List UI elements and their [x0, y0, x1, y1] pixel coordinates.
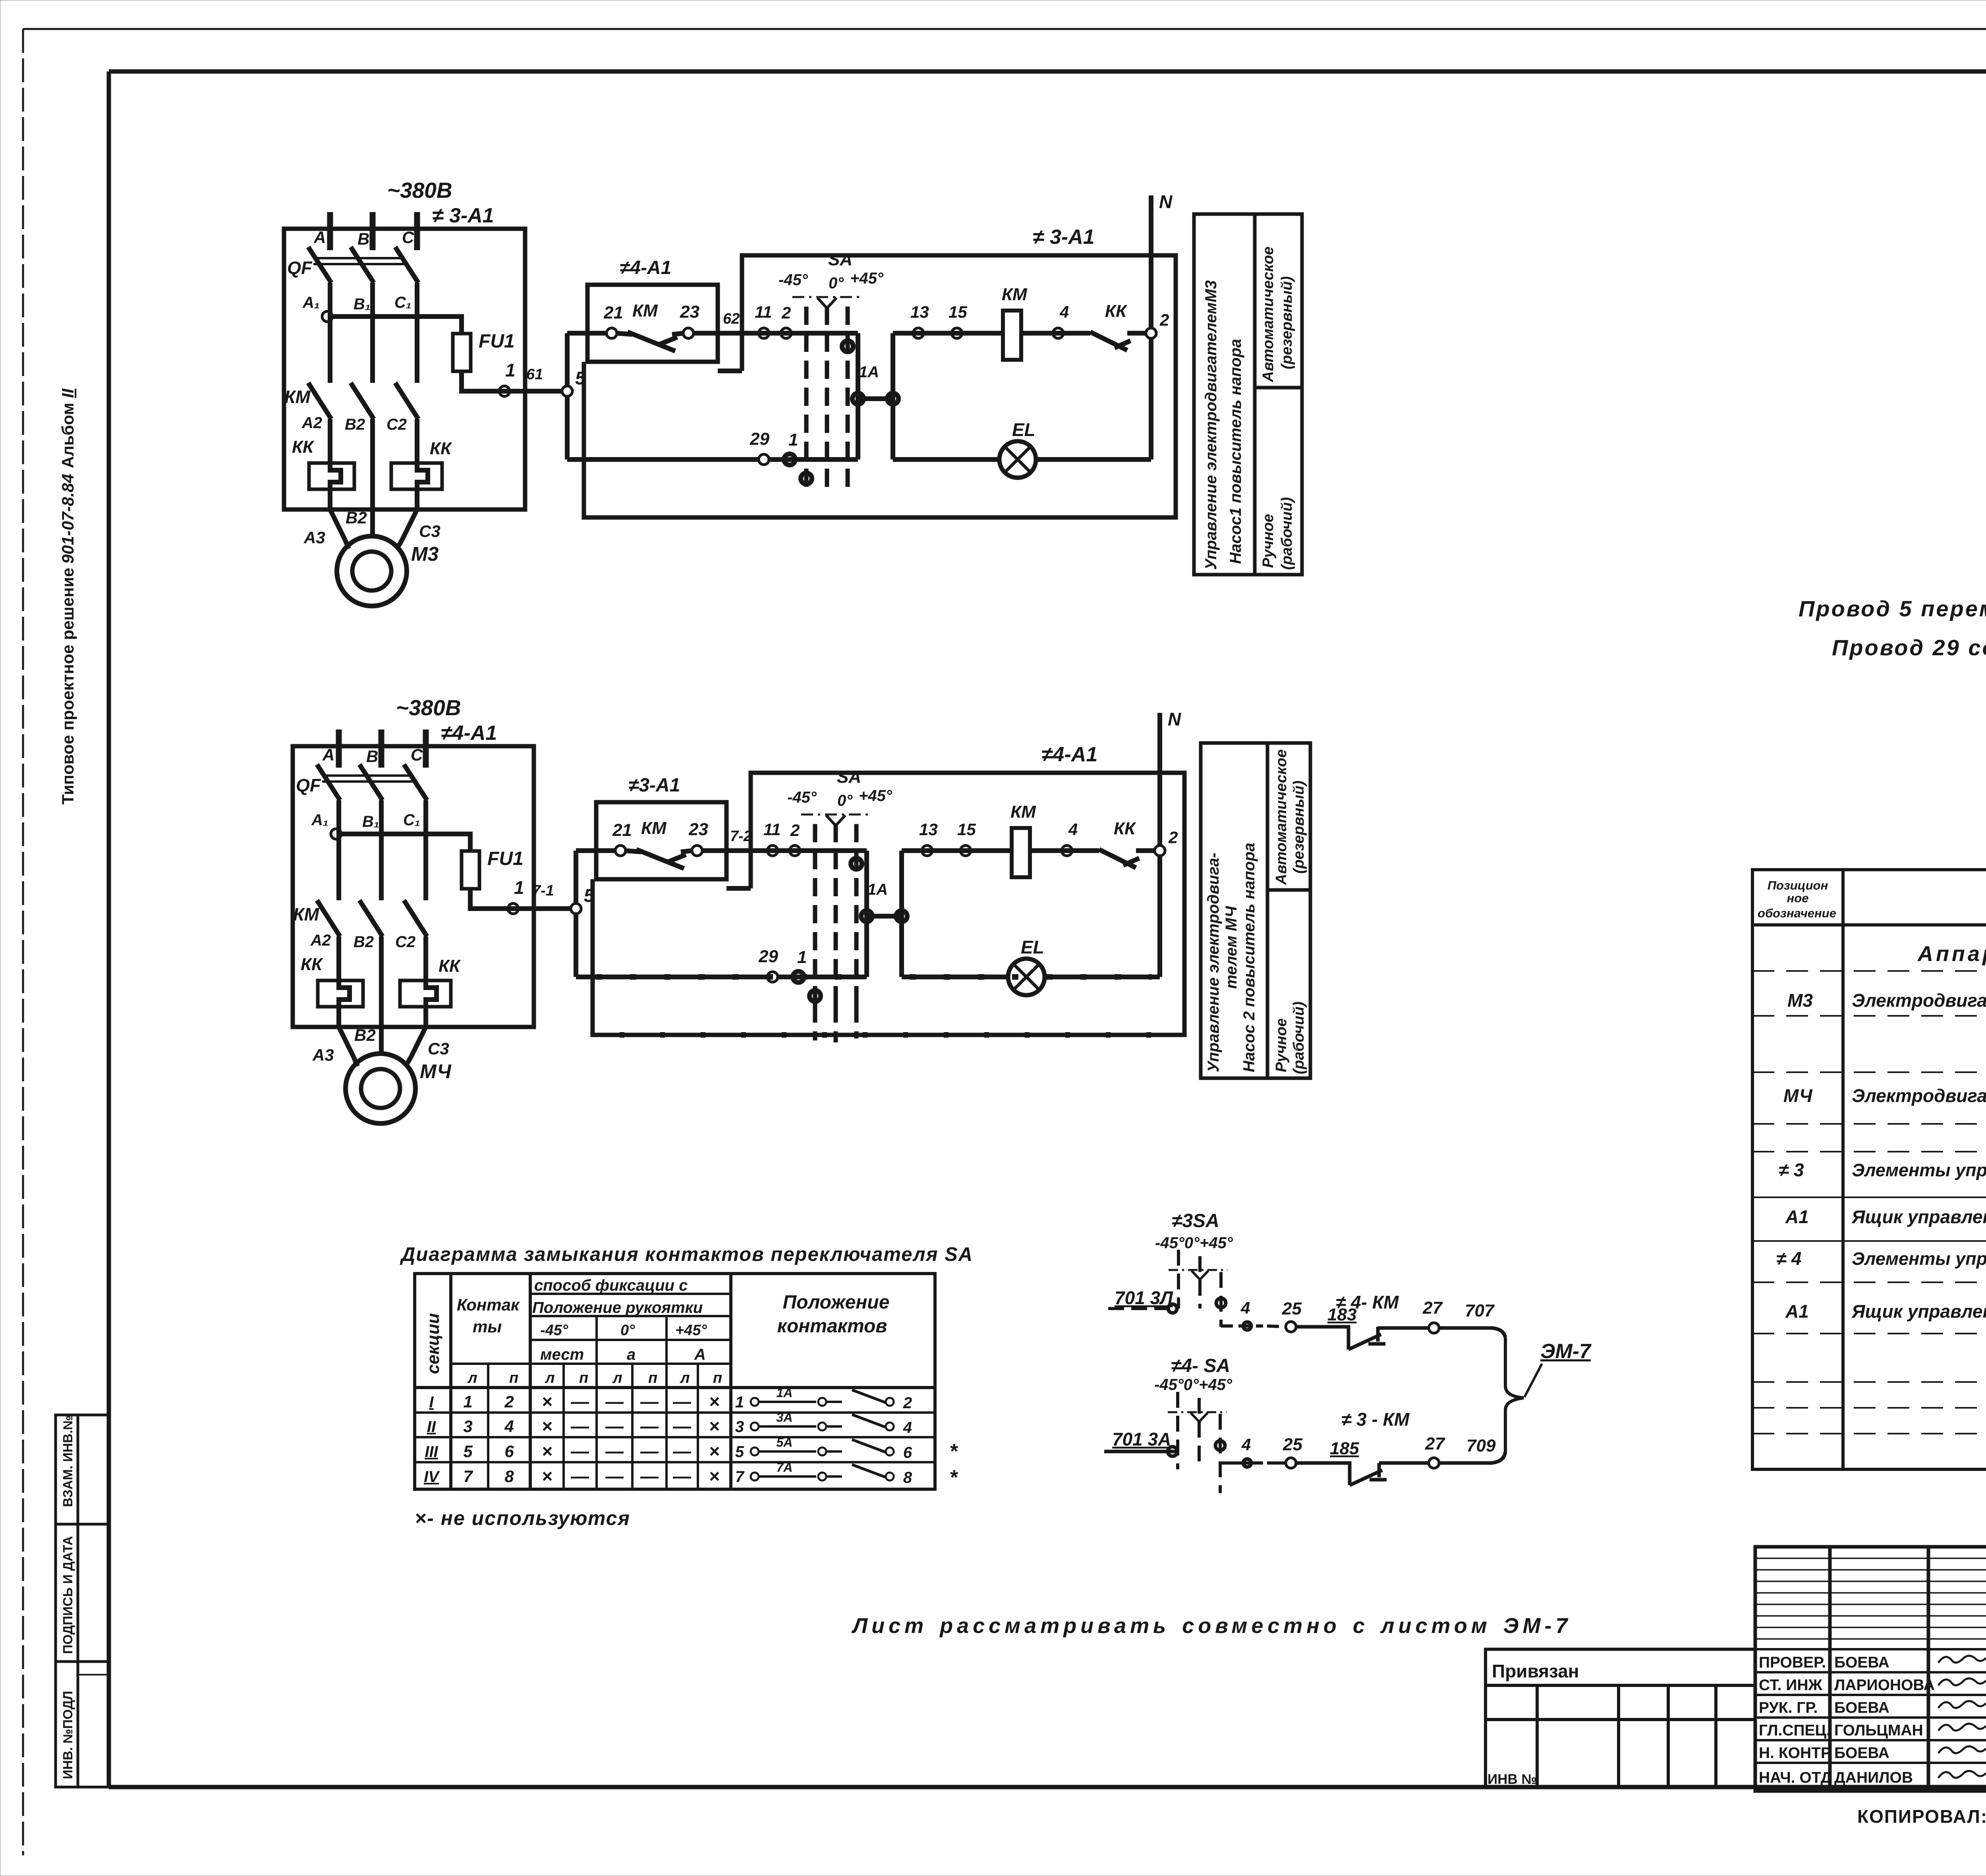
svg-text:(рабочий): (рабочий)	[1291, 1002, 1307, 1074]
svg-text:15: 15	[957, 820, 976, 839]
svg-text:секции: секции	[423, 1313, 443, 1374]
svg-text:0°: 0°	[620, 1322, 635, 1339]
svg-text:+45°: +45°	[675, 1322, 707, 1339]
svg-text:л: л	[467, 1370, 477, 1386]
svg-text:-45°0°+45°: -45°0°+45°	[1154, 1376, 1233, 1393]
svg-text:701 3Л: 701 3Л	[1115, 1287, 1173, 1308]
svg-text:23: 23	[688, 820, 708, 839]
svg-text:7А: 7А	[777, 1460, 793, 1475]
svg-text:М3: М3	[1787, 990, 1813, 1011]
svg-text:≠ 3-А1: ≠ 3-А1	[432, 204, 494, 227]
svg-text:п: п	[509, 1370, 518, 1386]
svg-text:8: 8	[903, 1469, 912, 1486]
svg-text:1А: 1А	[777, 1386, 793, 1400]
svg-text:×- не используются: ×- не используются	[415, 1507, 630, 1529]
svg-text:А: А	[322, 745, 334, 764]
svg-text:—: —	[605, 1416, 624, 1436]
svg-text:+45°: +45°	[850, 270, 884, 287]
svg-text:л: л	[612, 1370, 622, 1386]
svg-text:7-1: 7-1	[532, 882, 554, 899]
svg-text:27: 27	[1422, 1298, 1443, 1318]
svg-text:III: III	[425, 1443, 438, 1461]
svg-text:л: л	[680, 1370, 690, 1386]
svg-text:5: 5	[584, 885, 595, 906]
svg-text:~380В: ~380В	[387, 178, 452, 203]
svg-text:709: 709	[1466, 1436, 1496, 1455]
svg-text:КОПИРОВАЛ: КОРШУНОВА: КОПИРОВАЛ: КОРШУНОВА	[1857, 1806, 1986, 1827]
svg-text:×: ×	[709, 1416, 720, 1436]
svg-text:Провод 5 перемкнуть с пров: Провод 5 перемкнуть с проводом 1.	[1799, 596, 1986, 621]
svg-text:5А: 5А	[777, 1435, 793, 1449]
svg-text:ное: ное	[1787, 891, 1809, 905]
svg-text:185: 185	[1330, 1439, 1359, 1458]
svg-text:ЛАРИОНОВА: ЛАРИОНОВА	[1834, 1677, 1935, 1694]
svg-text:В2: В2	[345, 416, 365, 433]
svg-text:—: —	[672, 1441, 692, 1461]
svg-text:—: —	[605, 1391, 624, 1412]
svg-text:КК: КК	[430, 439, 452, 458]
svg-text:Автоматическое: Автоматическое	[1260, 247, 1277, 382]
svg-text:КМ: КМ	[293, 904, 320, 924]
svg-text:4: 4	[1241, 1435, 1251, 1454]
svg-text:23: 23	[680, 302, 699, 322]
svg-text:С: С	[402, 228, 414, 247]
svg-text:ГЛ.СПЕЦ.: ГЛ.СПЕЦ.	[1759, 1722, 1831, 1739]
svg-text:≠ 3-А1: ≠ 3-А1	[1033, 226, 1095, 249]
svg-text:1: 1	[463, 1392, 472, 1411]
svg-text:КМ: КМ	[284, 387, 311, 407]
svg-text:Управление электродвига-: Управление электродвига-	[1205, 853, 1222, 1072]
svg-text:А1: А1	[1785, 1301, 1809, 1322]
svg-text:А2: А2	[310, 932, 331, 949]
svg-text:×: ×	[542, 1416, 553, 1436]
svg-text:—: —	[672, 1466, 692, 1486]
svg-text:С3: С3	[419, 522, 440, 540]
svg-text:—: —	[640, 1466, 659, 1486]
svg-text:Положение рукоятки: Положение рукоятки	[532, 1299, 703, 1316]
svg-text:ГОЛЬЦМАН: ГОЛЬЦМАН	[1834, 1722, 1923, 1739]
svg-text:25: 25	[1282, 1299, 1302, 1318]
svg-text:7: 7	[463, 1467, 473, 1486]
svg-text:5: 5	[463, 1442, 473, 1461]
svg-text:КК: КК	[1105, 301, 1128, 321]
svg-text:EL: EL	[1012, 419, 1036, 440]
svg-text:2: 2	[504, 1392, 514, 1411]
svg-text:×: ×	[709, 1466, 720, 1486]
svg-text:21: 21	[603, 303, 623, 322]
svg-text:С3: С3	[428, 1039, 449, 1058]
svg-text:(рабочий): (рабочий)	[1279, 497, 1295, 570]
svg-text:≠4-А1: ≠4-А1	[1041, 743, 1097, 766]
svg-text:SА: SА	[837, 767, 861, 787]
svg-text:БОЕВА: БОЕВА	[1834, 1745, 1889, 1762]
svg-text:РУК. ГР.: РУК. ГР.	[1759, 1699, 1818, 1716]
svg-text:6: 6	[903, 1444, 912, 1461]
svg-text:707: 707	[1465, 1301, 1495, 1320]
svg-text:13: 13	[910, 303, 929, 321]
svg-text:л: л	[545, 1370, 555, 1386]
svg-text:FU1: FU1	[487, 848, 524, 869]
svg-text:Аппаратура по месту: Аппаратура по месту	[1917, 942, 1986, 966]
svg-text:61: 61	[526, 366, 543, 383]
svg-text:×: ×	[709, 1441, 720, 1461]
svg-text:0°: 0°	[837, 792, 853, 809]
svg-text:≠ 4: ≠ 4	[1776, 1248, 1802, 1269]
svg-text:—: —	[605, 1441, 624, 1461]
svg-text:≠3-А1: ≠3-А1	[628, 775, 680, 796]
svg-text:В: В	[357, 230, 369, 248]
svg-text:В2: В2	[346, 508, 367, 527]
svg-text:Позицион: Позицион	[1768, 878, 1828, 892]
svg-text:×: ×	[542, 1391, 553, 1412]
svg-text:Насос1 повыситель напора: Насос1 повыситель напора	[1227, 339, 1244, 564]
svg-text:С2: С2	[395, 933, 415, 951]
svg-text:-45°: -45°	[779, 271, 808, 289]
svg-text:Н. КОНТР: Н. КОНТР	[1759, 1745, 1831, 1762]
svg-text:—: —	[570, 1441, 589, 1461]
svg-text:29: 29	[750, 429, 769, 449]
svg-text:а: а	[627, 1346, 636, 1363]
svg-text:II: II	[427, 1418, 436, 1436]
svg-text:ВЗАМ. ИНВ.№: ВЗАМ. ИНВ.№	[60, 1415, 75, 1507]
svg-text:—: —	[640, 1416, 659, 1436]
svg-text:*: *	[949, 1440, 958, 1463]
svg-text:Управление электродвигателемМ3: Управление электродвигателемМ3	[1202, 280, 1220, 570]
svg-text:0°: 0°	[829, 274, 844, 292]
svg-text:+45°: +45°	[859, 787, 893, 805]
svg-text:КМ: КМ	[632, 301, 658, 320]
svg-text:С₁: С₁	[394, 294, 411, 311]
svg-text:Автоматическое: Автоматическое	[1273, 749, 1290, 885]
svg-text:БОЕВА: БОЕВА	[1834, 1654, 1889, 1671]
svg-text:МЧ: МЧ	[1783, 1085, 1813, 1106]
svg-text:—: —	[640, 1391, 659, 1412]
svg-text:2: 2	[1159, 311, 1169, 329]
svg-text:≠4-А1: ≠4-А1	[620, 257, 671, 278]
svg-text:×: ×	[709, 1391, 720, 1412]
svg-text:~380В: ~380В	[396, 695, 461, 720]
svg-text:1А: 1А	[859, 363, 879, 381]
svg-text:4: 4	[1240, 1299, 1250, 1317]
svg-text:≠ 3 - КМ: ≠ 3 - КМ	[1341, 1409, 1410, 1430]
svg-text:Типовое проектное решение901-: Типовое проектное решение901-07-8.84Альб…	[58, 388, 77, 805]
svg-text:обозначение: обозначение	[1758, 906, 1836, 920]
svg-text:3: 3	[463, 1417, 472, 1436]
svg-text:СТ. ИНЖ: СТ. ИНЖ	[1759, 1677, 1822, 1694]
svg-text:5: 5	[575, 368, 586, 388]
svg-text:ДАНИЛОВ: ДАНИЛОВ	[1834, 1769, 1913, 1786]
svg-text:Ящик управления ЯУ5113-03А2Л: Ящик управления ЯУ5113-03А2Л (ЯУ-3)	[1851, 1206, 1986, 1227]
svg-text:4: 4	[1068, 820, 1078, 839]
svg-text:Электродвигатель 4АХ80В4; 1.: Электродвигатель 4АХ80В4; 1.5кВт,~380В	[1852, 990, 1986, 1011]
svg-text:11: 11	[755, 303, 772, 321]
svg-text:А: А	[694, 1346, 706, 1363]
svg-text:КК: КК	[439, 956, 461, 976]
svg-text:(резервный): (резервный)	[1279, 276, 1295, 369]
svg-text:ПОДПИСЬ И ДАТА: ПОДПИСЬ И ДАТА	[60, 1536, 75, 1654]
svg-text:КК: КК	[1114, 819, 1136, 838]
svg-text:С₁: С₁	[403, 811, 420, 829]
svg-text:×: ×	[542, 1466, 553, 1486]
svg-text:М3: М3	[411, 543, 439, 565]
svg-text:В2: В2	[354, 933, 374, 951]
svg-text:Диаграмма замыкания контактов: Диаграмма замыкания контактов переключат…	[400, 1244, 973, 1265]
svg-text:КМ: КМ	[641, 818, 667, 838]
svg-text:С: С	[411, 745, 423, 764]
svg-text:А₁: А₁	[302, 294, 320, 311]
svg-text:ты: ты	[473, 1317, 502, 1336]
svg-text:EL: EL	[1021, 937, 1044, 957]
svg-text:IV: IV	[424, 1468, 440, 1486]
svg-text:Насос 2 повыситель напора: Насос 2 повыситель напора	[1240, 843, 1258, 1072]
svg-text:11: 11	[763, 820, 781, 839]
svg-text:1: 1	[797, 948, 807, 967]
svg-text:-45°: -45°	[787, 789, 817, 806]
svg-text:1: 1	[788, 430, 798, 450]
svg-text:А1: А1	[1785, 1206, 1809, 1227]
svg-text:Провод 29 соединить с пров: Провод 29 соединить с проводом 5.	[1832, 635, 1986, 660]
svg-text:5: 5	[735, 1443, 744, 1461]
svg-text:3: 3	[735, 1418, 744, 1436]
svg-text:≠ 3: ≠ 3	[1779, 1160, 1804, 1180]
svg-text:мест: мест	[540, 1346, 584, 1363]
svg-text:N: N	[1168, 709, 1181, 730]
svg-text:НАЧ. ОТД: НАЧ. ОТД	[1759, 1769, 1832, 1786]
svg-text:*: *	[949, 1466, 958, 1489]
svg-text:N: N	[1159, 191, 1173, 212]
svg-text:способ фиксации с: способ фиксации с	[534, 1277, 688, 1294]
svg-text:701 3А: 701 3А	[1112, 1429, 1171, 1449]
svg-text:А2: А2	[301, 414, 322, 432]
svg-text:1: 1	[505, 360, 516, 380]
svg-text:Элементы управления электродви: Элементы управления электродвигателем М3	[1852, 1160, 1986, 1180]
svg-text:ИНВ №: ИНВ №	[1488, 1772, 1537, 1787]
svg-text:Ящик управления ЯУ5113-03А2Л: Ящик управления ЯУ5113-03А2Л (ЯУ-Ч)	[1851, 1301, 1986, 1322]
svg-text:МЧ: МЧ	[420, 1060, 452, 1083]
svg-text:Лист рассматривать совместно с: Лист рассматривать совместно с листом ЭМ…	[851, 1614, 1571, 1638]
svg-text:6: 6	[504, 1442, 514, 1461]
svg-text:29: 29	[758, 947, 778, 966]
svg-text:QF: QF	[287, 258, 313, 278]
svg-text:2: 2	[790, 821, 800, 840]
svg-text:КК: КК	[292, 437, 315, 457]
svg-text:БОЕВА: БОЕВА	[1834, 1699, 1889, 1716]
svg-text:п: п	[579, 1370, 588, 1386]
svg-text:Электродвигатель 4АХ80ВЧ; 1.5к: Электродвигатель 4АХ80ВЧ; 1.5кВт,~380В	[1852, 1085, 1986, 1106]
svg-text:7: 7	[735, 1468, 745, 1486]
svg-text:≠4-А1: ≠4-А1	[441, 722, 497, 745]
svg-text:2: 2	[1168, 828, 1178, 847]
svg-text:—: —	[672, 1391, 692, 1412]
svg-text:Контак: Контак	[457, 1295, 520, 1314]
svg-text:62: 62	[723, 311, 740, 327]
svg-text:—: —	[570, 1391, 589, 1412]
svg-text:—: —	[570, 1466, 589, 1486]
svg-text:телем МЧ: телем МЧ	[1223, 906, 1240, 989]
svg-text:В: В	[366, 747, 378, 766]
svg-text:×: ×	[542, 1441, 553, 1461]
svg-text:п: п	[713, 1370, 722, 1386]
svg-text:—: —	[672, 1416, 692, 1436]
svg-text:—: —	[570, 1416, 589, 1436]
svg-text:I: I	[429, 1393, 434, 1411]
svg-text:КМ: КМ	[1002, 285, 1028, 304]
svg-text:4: 4	[903, 1419, 912, 1436]
svg-text:А: А	[313, 228, 326, 247]
svg-text:ПРОВЕР.: ПРОВЕР.	[1759, 1654, 1826, 1671]
svg-text:В2: В2	[354, 1026, 376, 1044]
svg-text:15: 15	[949, 303, 967, 321]
svg-text:FU1: FU1	[479, 331, 515, 352]
svg-text:КМ: КМ	[1010, 802, 1036, 822]
svg-text:4: 4	[504, 1417, 514, 1436]
svg-text:А3: А3	[303, 528, 325, 547]
svg-text:—: —	[605, 1466, 624, 1486]
svg-text:КК: КК	[301, 955, 323, 974]
svg-text:Элементы управления электродви: Элементы управления электродвигателем МЧ	[1852, 1249, 1986, 1269]
svg-text:Ручное: Ручное	[1273, 1018, 1290, 1072]
svg-text:≠3SА: ≠3SА	[1172, 1210, 1219, 1231]
svg-text:1: 1	[514, 877, 524, 898]
svg-text:2: 2	[903, 1394, 912, 1412]
svg-text:В₁: В₁	[354, 295, 371, 313]
svg-text:ЭМ-7: ЭМ-7	[1540, 1340, 1592, 1363]
svg-text:А3: А3	[312, 1046, 334, 1064]
svg-text:1: 1	[735, 1393, 744, 1411]
svg-text:25: 25	[1283, 1435, 1302, 1454]
svg-text:Положение: Положение	[783, 1292, 890, 1313]
svg-text:21: 21	[612, 820, 632, 840]
svg-text:7-2: 7-2	[730, 828, 752, 845]
svg-text:-45°0°+45°: -45°0°+45°	[1155, 1234, 1233, 1252]
svg-text:С2: С2	[386, 416, 407, 433]
svg-text:≠ 4- КМ: ≠ 4- КМ	[1336, 1292, 1399, 1312]
svg-text:А₁: А₁	[311, 811, 328, 829]
svg-text:п: п	[648, 1370, 657, 1386]
svg-text:≠4- SА: ≠4- SА	[1171, 1355, 1230, 1376]
svg-text:Ручное: Ручное	[1260, 514, 1277, 568]
svg-text:(резервный): (резервный)	[1291, 781, 1307, 874]
svg-text:QF: QF	[296, 775, 321, 795]
svg-text:ИНВ. №ПОДЛ: ИНВ. №ПОДЛ	[60, 1691, 75, 1779]
svg-text:В₁: В₁	[362, 813, 379, 830]
svg-text:-45°: -45°	[540, 1322, 568, 1339]
svg-text:1А: 1А	[867, 881, 888, 898]
svg-text:4: 4	[1059, 303, 1069, 321]
svg-text:13: 13	[919, 820, 938, 839]
svg-text:SА: SА	[828, 250, 852, 269]
svg-text:27: 27	[1425, 1434, 1445, 1453]
svg-text:Привязан: Привязан	[1492, 1661, 1579, 1681]
svg-text:2: 2	[781, 303, 791, 322]
svg-text:8: 8	[504, 1467, 514, 1486]
svg-text:контактов: контактов	[777, 1316, 887, 1337]
svg-text:3А: 3А	[777, 1410, 793, 1424]
svg-text:—: —	[640, 1441, 659, 1461]
